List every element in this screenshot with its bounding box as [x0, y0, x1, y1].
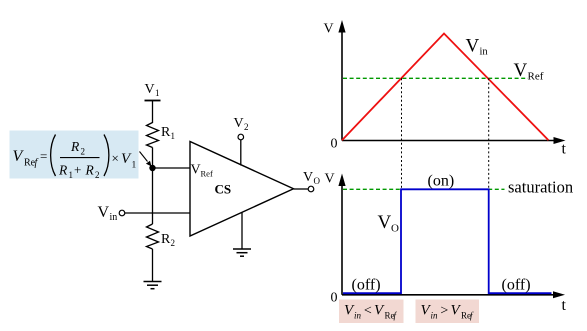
formula box VRef = (R2/(R1+R2)) x V1	[10, 131, 139, 181]
svg-text:Ref: Ref	[201, 169, 213, 179]
svg-text:V: V	[145, 82, 155, 97]
VO square waveform	[343, 189, 552, 293]
label Vin (top graph)	[466, 36, 489, 58]
ground (R2)	[144, 282, 162, 289]
svg-text:saturation: saturation	[508, 178, 573, 197]
condition box Vin < VRef	[339, 300, 404, 324]
label VO (bottom graph)	[378, 212, 400, 235]
wire node down to R2	[152, 168, 154, 224]
crossing guide t2 (dotted)	[488, 78, 490, 189]
wire V1 to R1	[152, 101, 154, 124]
svg-text:V: V	[378, 212, 392, 233]
svg-text:0: 0	[331, 137, 338, 152]
svg-text:×: ×	[112, 151, 119, 166]
svg-text:V: V	[234, 116, 244, 131]
svg-text:Ref: Ref	[528, 71, 544, 83]
svg-text:0: 0	[331, 291, 338, 306]
svg-text:in: in	[480, 47, 489, 58]
Vin triangle waveform	[342, 34, 549, 141]
label VRef (top graph)	[514, 60, 544, 83]
svg-text:CS: CS	[215, 182, 232, 197]
svg-text:R: R	[70, 139, 80, 154]
svg-text:1: 1	[171, 131, 176, 141]
svg-text:V: V	[466, 36, 480, 57]
svg-text:t: t	[562, 297, 567, 314]
svg-text:2: 2	[171, 238, 176, 248]
svg-text:V: V	[324, 22, 334, 37]
label R2	[161, 232, 175, 248]
t axis (bottom graph)	[342, 291, 565, 298]
svg-text:<: <	[363, 304, 372, 319]
svg-text:V: V	[325, 172, 335, 187]
wire R2 to ground	[152, 249, 154, 282]
svg-text:V: V	[303, 170, 313, 185]
svg-text:R: R	[161, 232, 171, 247]
svg-text:in: in	[110, 212, 118, 223]
op-amp comparator CS	[190, 142, 294, 237]
node VRef junction	[149, 165, 155, 171]
V axis (bottom graph)	[338, 174, 345, 295]
wire node to comparator input	[153, 167, 191, 169]
svg-text:t: t	[562, 141, 567, 158]
saturation dashed level (bottom graph)	[343, 188, 505, 190]
input terminal Vin	[119, 210, 125, 216]
svg-text:2: 2	[81, 147, 86, 157]
wire V2 to comparator top	[240, 140, 242, 166]
wire R1 to node	[152, 148, 154, 169]
svg-text:1: 1	[69, 170, 74, 180]
crossing guide t1 (dotted)	[401, 78, 403, 189]
svg-text:V: V	[514, 60, 528, 81]
svg-text:O: O	[314, 176, 321, 186]
resistor R1	[147, 123, 159, 148]
svg-text:V: V	[191, 163, 201, 178]
svg-text:V: V	[98, 204, 110, 221]
VRef dashed threshold (top graph)	[343, 77, 528, 79]
output terminal VO	[308, 186, 314, 192]
svg-text:(off): (off)	[352, 277, 381, 294]
label R1	[161, 125, 175, 141]
svg-text:(off): (off)	[502, 277, 531, 294]
condition box Vin > VRef	[416, 300, 480, 324]
svg-text:+: +	[74, 162, 81, 177]
svg-text:2: 2	[244, 122, 249, 132]
svg-text:2: 2	[95, 170, 100, 180]
wire Vin to comparator	[125, 212, 190, 214]
label V1	[145, 82, 160, 98]
label V2	[234, 116, 249, 132]
resistor R2	[147, 224, 159, 249]
wire comparator output	[294, 188, 309, 190]
svg-text:1: 1	[132, 161, 137, 171]
label VO (circuit output)	[303, 170, 321, 186]
svg-text:(on): (on)	[428, 173, 455, 190]
V axis (top graph)	[338, 20, 345, 141]
arrow from formula to VRef node	[140, 152, 152, 167]
supply terminal V2	[238, 134, 244, 140]
svg-text:R: R	[85, 163, 95, 178]
label Vin	[98, 204, 118, 223]
svg-text:>: >	[440, 304, 449, 319]
ground (comparator)	[233, 249, 251, 256]
svg-text:R: R	[58, 163, 68, 178]
svg-text:1: 1	[155, 88, 160, 98]
svg-text:in: in	[431, 311, 439, 321]
label VRef (comparator input)	[191, 163, 213, 179]
svg-text:in: in	[354, 311, 362, 321]
t axis (top graph)	[342, 137, 566, 144]
wire comparator bottom to ground	[241, 213, 243, 250]
svg-text:=: =	[40, 149, 47, 164]
svg-text:R: R	[161, 125, 171, 140]
svg-text:O: O	[391, 223, 399, 235]
supply terminal V1	[145, 100, 161, 102]
